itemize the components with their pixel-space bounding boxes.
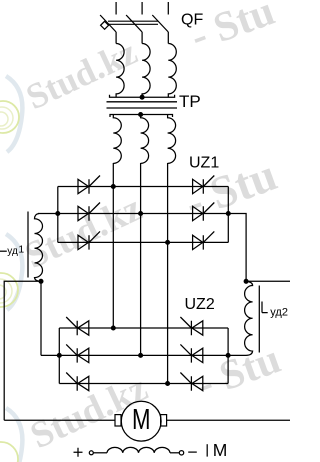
svg-text:QF: QF (181, 12, 203, 29)
svg-text:M: M (132, 404, 151, 435)
node UZ1 right bus row2 (226, 212, 230, 216)
node reactor L_ud2 top (244, 279, 248, 283)
wire UZ2 row 2 (41, 354, 228, 356)
svg-text:уд: уд (7, 246, 18, 257)
node phase a UZ2 (111, 326, 115, 330)
wire UZ1 output to reactor 2 (228, 214, 246, 282)
thyristor UZ2 VS6 (180, 373, 202, 391)
thyristor UZ2 VS3 (66, 373, 89, 391)
transformer TP core (107, 102, 178, 108)
wire UZ1 row 3 (58, 241, 229, 243)
circuit breaker QF (100, 2, 168, 44)
motor M armature (115, 401, 167, 441)
transformer TP primary winding A (116, 44, 124, 98)
wire motor right (167, 419, 290, 421)
node secondary star point (139, 113, 143, 117)
wire phase a (112, 163, 114, 328)
thyristor UZ1 VS3 (78, 231, 100, 249)
wire (170, 452, 179, 454)
transformer TP secondary winding a (113, 115, 121, 164)
node phase a UZ1 (111, 185, 115, 189)
reactor L_ud2 core (258, 286, 260, 353)
rectifier bridge UZ1 (38, 176, 230, 250)
node reactor L_ud1 bottom (39, 279, 43, 283)
node primary star point (140, 95, 144, 99)
brush left (115, 415, 121, 426)
thyristor UZ1 VS2 (78, 203, 100, 221)
node phase b UZ2 (139, 354, 143, 358)
brush right (161, 415, 167, 426)
thyristor UZ2 VS2 (66, 344, 89, 362)
wire phase c (167, 163, 169, 384)
wire UZ2 row 3 (59, 383, 228, 385)
wire reactor1 to UZ2 (40, 281, 42, 355)
thyristor UZ1 VS5 (193, 203, 215, 221)
svg-text:UZ2: UZ2 (185, 296, 215, 313)
node UZ1 left bus row2 (56, 212, 60, 216)
thyristor UZ1 VS4 (193, 176, 215, 194)
thyristor UZ1 VS6 (193, 231, 215, 249)
wire UZ1 left bus (57, 187, 59, 243)
node phase c UZ2 (166, 382, 170, 386)
transformer TP primary winding C (168, 44, 176, 98)
wire (93, 452, 107, 454)
reactor L_ud1 core (27, 212, 29, 278)
wire reactor2 to right edge (246, 280, 290, 282)
rectifier bridge UZ2 (41, 317, 230, 391)
transformer TP secondary winding c (168, 115, 176, 164)
wire motor left (4, 419, 115, 421)
svg-text:UZ1: UZ1 (189, 155, 219, 172)
reactor L_ud2 winding (228, 281, 253, 355)
wire UZ2 right bus (227, 328, 229, 384)
label L_ud2 L glyph (262, 302, 268, 313)
thyristor UZ2 VS1 (66, 317, 89, 335)
node UZ2 left bus row2 (57, 354, 61, 358)
svg-text:1: 1 (18, 244, 24, 256)
reactor L_ud1 winding (35, 214, 43, 282)
label L_ud1 partial (0, 250, 7, 252)
node phase c UZ1 (166, 241, 170, 245)
wire secondary bus (110, 115, 173, 118)
thyristor UZ2 VS5 (180, 344, 202, 362)
wire UZ1 right bus (227, 187, 229, 243)
transformer TP primary winding B (142, 44, 150, 98)
field coil (107, 447, 170, 452)
smoothing reactor L_ud2 (228, 281, 259, 355)
plus sign (74, 448, 83, 457)
wire UZ1 row 2 (38, 213, 228, 215)
svg-text:ТР: ТР (179, 92, 201, 111)
wire primary bus (110, 95, 175, 98)
thyristor UZ2 VS4 (180, 317, 202, 335)
transformer TP secondary winding b (141, 115, 149, 164)
terminal left (89, 451, 93, 455)
wire UZ2 left bus (58, 328, 60, 384)
wire reactor1 to motor minus (4, 281, 41, 420)
minus sign (188, 451, 197, 453)
wire UZ2 row 1 (59, 327, 228, 329)
smoothing reactor L_ud1 (28, 212, 43, 282)
terminal right (179, 451, 183, 455)
thyristor UZ1 VS1 (78, 176, 100, 194)
svg-text:М: М (213, 440, 228, 460)
wire UZ1 row 1 (58, 186, 229, 188)
node phase b UZ1 (139, 212, 143, 216)
label bar (206, 444, 208, 456)
wire phase b (140, 163, 142, 355)
excitation winding LM (74, 444, 208, 457)
node UZ2 right bus row2 (226, 354, 230, 358)
svg-text:уд2: уд2 (270, 306, 288, 318)
